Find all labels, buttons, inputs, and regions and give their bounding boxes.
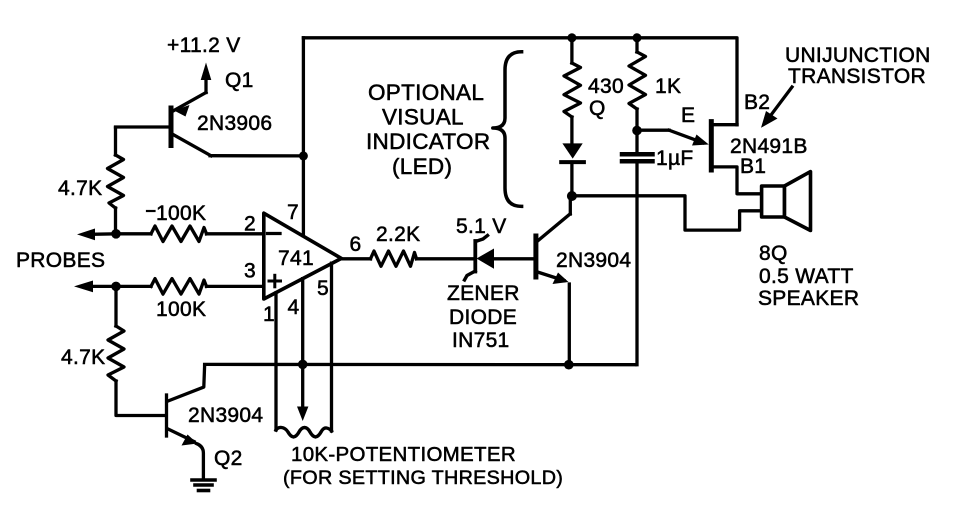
resistor R7 1K [629, 52, 646, 109]
probe arrow upper [92, 232, 116, 236]
node upper probe junction [111, 229, 121, 239]
svg-text:INDICATOR: INDICATOR [366, 129, 490, 154]
svg-text:2N3904: 2N3904 [556, 249, 631, 272]
svg-text:0.5 WATT: 0.5 WATT [759, 265, 854, 288]
svg-text:(FOR SETTING THRESHOLD): (FOR SETTING THRESHOLD) [283, 467, 563, 489]
svg-text:5.1 V: 5.1 V [456, 215, 507, 238]
wire negative rail [205, 363, 635, 367]
svg-text:100K: 100K [156, 202, 206, 225]
svg-text:4: 4 [288, 296, 300, 319]
supply arrow up [204, 72, 207, 93]
svg-text:IN751: IN751 [452, 329, 510, 352]
svg-text:4.7K: 4.7K [58, 177, 102, 200]
transistor Q2 2N3904 [167, 366, 205, 478]
svg-text:SPEAKER: SPEAKER [758, 287, 859, 310]
resistor R4 4.7K lower [108, 326, 124, 381]
svg-text:Q: Q [589, 97, 606, 120]
wire V+ vertical from rail to op-amp pin 7 [302, 38, 305, 236]
transistor Q3 2N3904 driver [536, 198, 570, 365]
node junction wiper / negative rail [298, 360, 308, 370]
annotation arrow to UJT [761, 87, 792, 128]
stray dash mark [147, 210, 155, 212]
wire op-amp pin 5 down to potentiometer [330, 263, 333, 431]
node junction top rail / 1K branch [633, 33, 642, 42]
wire rail to 1K resistor [635, 38, 638, 52]
node junction top rail / 430 branch [567, 33, 576, 42]
wire op-amp pin 1 down to potentiometer [274, 293, 277, 430]
svg-text:7: 7 [287, 201, 299, 224]
svg-text:2N3904: 2N3904 [188, 404, 263, 427]
resistor R2 100K upper [116, 226, 264, 242]
svg-text:+11.2 V: +11.2 V [167, 34, 241, 57]
svg-text:2.2K: 2.2K [376, 223, 420, 246]
potentiometer 10K body [276, 427, 332, 437]
op-amp U1 741 [264, 213, 342, 299]
svg-text:10K-POTENTIOMETER: 10K-POTENTIOMETER [291, 443, 516, 466]
svg-text:OPTIONAL: OPTIONAL [368, 80, 484, 105]
svg-text:UNIJUNCTION: UNIJUNCTION [785, 44, 931, 67]
svg-text:4.7K: 4.7K [61, 346, 105, 369]
svg-text:1K: 1K [655, 75, 681, 98]
node junction LED / Q3 collector / speaker return [567, 191, 577, 201]
probe arrow lower [92, 285, 116, 288]
svg-text:B1: B1 [740, 155, 766, 178]
svg-text:2N3906: 2N3906 [197, 112, 272, 135]
resistor R1 4.7K upper [108, 155, 124, 208]
svg-text:5: 5 [317, 277, 329, 300]
svg-text:6: 6 [350, 233, 362, 256]
wire top V+ rail with right-end drop to UJT B2 [303, 38, 737, 125]
wire op-amp output pin 6 [341, 257, 370, 260]
node junction Q3 emitter / negative rail [564, 360, 574, 370]
svg-text:100K: 100K [156, 298, 206, 321]
node junction Q1 collector / V+ vertical [299, 151, 308, 160]
svg-text:8Q: 8Q [759, 242, 788, 265]
wire 430 to LED [570, 117, 573, 143]
svg-text:DIODE: DIODE [449, 306, 517, 329]
svg-text:1µF: 1µF [656, 147, 694, 170]
zener diode D1 IN751 [465, 236, 534, 281]
resistor R3 100K lower [116, 279, 264, 295]
resistor R5 2.2K [371, 251, 417, 266]
transistor Q1 2N3906 [116, 93, 212, 156]
svg-text:741: 741 [278, 247, 314, 270]
resistor R6 430 ohm [564, 63, 581, 117]
svg-text:3: 3 [244, 260, 256, 283]
svg-text:430: 430 [588, 75, 624, 98]
node junction 1K / cap / UJT emitter [632, 126, 642, 136]
wire Q1 collector to V+ vertical [210, 154, 303, 157]
svg-text:2: 2 [244, 213, 256, 236]
svg-text:(LED): (LED) [392, 154, 452, 179]
wire speaker return from LED node [572, 196, 763, 230]
wire 2.2K to zener [417, 257, 475, 260]
wire Q1 base down to 4.7K [114, 128, 117, 155]
svg-text:ZENER: ZENER [447, 282, 520, 305]
svg-text:VISUAL: VISUAL [382, 105, 464, 130]
wire rail to 430 resistor [570, 38, 573, 63]
wire 4.7K to Q2 base [116, 381, 164, 416]
ground [192, 480, 215, 491]
svg-text:TRANSISTOR: TRANSISTOR [788, 65, 926, 88]
svg-text:PROBES: PROBES [16, 249, 105, 272]
capacitor C1 1uF [622, 131, 653, 365]
unijunction transistor 2N491B [637, 122, 760, 194]
svg-text:Q1: Q1 [225, 69, 254, 92]
svg-text:E: E [681, 104, 695, 127]
wire lower probe node down to 4.7K [114, 286, 117, 326]
LED D2 [561, 143, 584, 196]
brace for optional indicator [493, 52, 522, 207]
speaker SP1 [762, 172, 811, 231]
svg-text:B2: B2 [744, 91, 770, 114]
node lower probe junction [111, 282, 121, 292]
svg-text:1: 1 [263, 303, 275, 326]
wire op-amp pin 4 / wiper with arrow [301, 279, 304, 408]
wire 1K to E node [635, 109, 638, 131]
svg-text:Q2: Q2 [214, 447, 243, 470]
wire 4.7K to upper probe node [114, 208, 117, 234]
